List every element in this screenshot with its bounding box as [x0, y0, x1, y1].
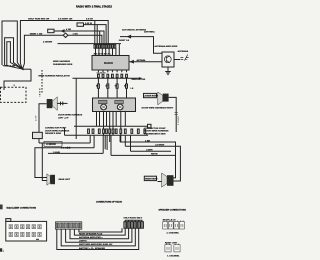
- svg-text:CONNECTIONS OF RADIO: CONNECTIONS OF RADIO: [96, 201, 122, 204]
- svg-text:RIGHT LEFT: RIGHT LEFT: [165, 243, 178, 245]
- svg-text:DOOR WIRE HARNESS: DOOR WIRE HARNESS: [58, 114, 83, 117]
- svg-text:LEFT +8 F: LEFT +8 F: [58, 117, 69, 119]
- svg-text:RE/YE: RE/YE: [151, 154, 158, 156]
- svg-text:0.35 W: 0.35 W: [85, 23, 93, 25]
- svg-text:4 GE/SW: 4 GE/SW: [43, 41, 53, 44]
- svg-text:GN/RT 1 GN: GN/RT 1 GN: [30, 33, 43, 35]
- svg-text:EQUALIZER CONNECTIONS: EQUALIZER CONNECTIONS: [7, 206, 37, 209]
- svg-text:0.5: 0.5: [105, 86, 108, 88]
- svg-text:2. CHANNEL: 2. CHANNEL: [167, 231, 180, 234]
- svg-text:PASSENGER'S SIDE: PASSENGER'S SIDE: [144, 132, 166, 135]
- svg-text:0.5: 0.5: [115, 86, 118, 88]
- svg-text:ANTENNA: ANTENNA: [137, 59, 146, 62]
- svg-text:0.5 GE/RT GN: 0.5 GE/RT GN: [58, 19, 73, 21]
- svg-text:GE/RT 0.5: GE/RT 0.5: [119, 40, 130, 42]
- svg-text:CONNECTOR POINT: CONNECTOR POINT: [45, 128, 67, 130]
- svg-text:RADIO WITH 2 FINAL STAGES: RADIO WITH 2 FINAL STAGES: [76, 6, 112, 9]
- svg-text:DRIVER'S SIDE: DRIVER'S SIDE: [45, 133, 61, 135]
- svg-text:WIRE HARNESS REGULATOR: WIRE HARNESS REGULATOR: [38, 74, 70, 77]
- svg-text:LS BR/W: LS BR/W: [155, 145, 165, 147]
- svg-text:ANTENNA: ANTENNA: [178, 50, 189, 53]
- svg-text:0.75 B/RT: 0.75 B/RT: [178, 115, 180, 125]
- svg-text:WIRE HARNESS: WIRE HARNESS: [53, 60, 71, 63]
- svg-text:0.5: 0.5: [124, 86, 127, 88]
- svg-text:0.5 W: 0.5 W: [36, 116, 38, 121]
- svg-text:1 GN/B: 1 GN/B: [53, 152, 61, 154]
- svg-text:0.5: 0.5: [96, 86, 99, 88]
- svg-text:RR RF LR LF: RR RF LR LF: [163, 219, 177, 221]
- svg-text:1 2 4 5 7 8: 1 2 4 5 7 8: [97, 72, 106, 75]
- svg-text:0.5 GE: 0.5 GE: [86, 19, 93, 21]
- svg-text:ANTENNA AMPLIFIER +: ANTENNA AMPLIFIER +: [79, 236, 103, 239]
- svg-text:BATTERY + CL. SPEAKER: BATTERY + CL. SPEAKER: [79, 247, 105, 250]
- svg-text:ANTENNA: ANTENNA: [144, 30, 155, 33]
- svg-text:RADIO: RADIO: [104, 61, 114, 65]
- svg-text:RIGHT SPEAKER PLUS: RIGHT SPEAKER PLUS: [79, 232, 103, 235]
- svg-text:SPEAKER CONNECTIONS: SPEAKER CONNECTIONS: [159, 209, 187, 212]
- svg-text:1 GN: 1 GN: [10, 66, 16, 68]
- svg-text:1 GN: 1 GN: [73, 33, 79, 35]
- svg-text:LS BR/SW: LS BR/SW: [46, 144, 56, 146]
- svg-text:2 BR: 2 BR: [145, 140, 150, 142]
- svg-text:CONNECTOR POINT: CONNECTOR POINT: [144, 128, 166, 130]
- svg-text:JOKER RIGHT: JOKER RIGHT: [144, 96, 158, 98]
- svg-text:PASSENGER SIDE: PASSENGER SIDE: [53, 63, 73, 66]
- svg-text:ONLY RADIO GB D: ONLY RADIO GB D: [124, 216, 143, 219]
- svg-text:LS/BR: LS/BR: [146, 149, 153, 151]
- svg-text:DOOR WIRE HARNESS RIGHT: DOOR WIRE HARNESS RIGHT: [142, 107, 174, 110]
- svg-text:SWITCHED AMPLIFIER JUNG. BU: SWITCHED AMPLIFIER JUNG. BU: [79, 243, 113, 246]
- svg-text:REGULATOR: REGULATOR: [132, 78, 146, 81]
- svg-text:4 GE: 4 GE: [66, 28, 72, 31]
- svg-text:LIGHTS: LIGHTS: [79, 241, 87, 243]
- svg-text:0.5 GN/A: 0.5 GN/A: [61, 146, 71, 149]
- svg-text:ANTENNA AMPLIFIER: ANTENNA AMPLIFIER: [154, 45, 177, 48]
- svg-text:REAR LEFT: REAR LEFT: [59, 178, 71, 181]
- svg-text:DOOR WIRE HARNESS: DOOR WIRE HARNESS: [144, 130, 169, 133]
- svg-text:DOOR WIRE HARNESS: DOOR WIRE HARNESS: [45, 129, 70, 132]
- svg-text:GN/LT ROM RED OR: GN/LT ROM RED OR: [28, 19, 50, 21]
- svg-text:1. CHANNEL: 1. CHANNEL: [167, 254, 180, 257]
- svg-text:AUTOMATIC ANTENNA: AUTOMATIC ANTENNA: [122, 28, 147, 31]
- svg-text:REAR RIGHT: REAR RIGHT: [145, 178, 158, 181]
- svg-text:25 A 30 GE A4 L/R +: 25 A 30 GE A4 L/R +: [94, 53, 113, 56]
